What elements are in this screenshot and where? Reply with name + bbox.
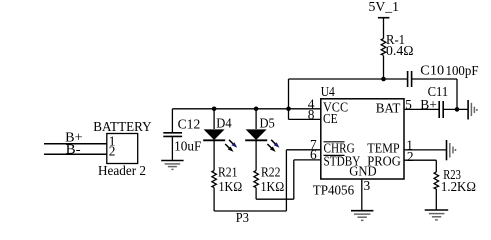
svg-text:R22: R22 <box>261 165 281 180</box>
svg-text:C12: C12 <box>178 116 201 131</box>
svg-text:R21: R21 <box>218 165 238 180</box>
svg-text:3: 3 <box>364 178 371 193</box>
svg-text:6: 6 <box>310 147 317 162</box>
svg-text:P3: P3 <box>236 210 249 225</box>
svg-text:U4: U4 <box>321 84 335 99</box>
svg-text:10uF: 10uF <box>174 139 201 154</box>
svg-text:CE: CE <box>323 111 338 126</box>
svg-text:2: 2 <box>407 149 414 164</box>
svg-text:B+: B+ <box>420 97 437 112</box>
svg-text:5: 5 <box>405 97 412 112</box>
svg-text:B-: B- <box>66 142 81 157</box>
svg-text:5V_1: 5V_1 <box>369 0 400 14</box>
svg-text:D5: D5 <box>260 116 276 131</box>
svg-text:D4: D4 <box>216 116 232 131</box>
svg-text:0.4Ω: 0.4Ω <box>386 43 414 58</box>
svg-text:8: 8 <box>308 107 315 122</box>
svg-text:BATTERY: BATTERY <box>93 119 152 134</box>
svg-text:1KΩ: 1KΩ <box>219 179 243 194</box>
svg-text:100pF: 100pF <box>446 63 479 78</box>
svg-text:1KΩ: 1KΩ <box>261 179 285 194</box>
svg-text:GND: GND <box>349 164 377 179</box>
svg-text:BAT: BAT <box>376 101 401 116</box>
svg-text:TP4056: TP4056 <box>313 182 355 197</box>
svg-text:C10: C10 <box>420 63 444 78</box>
svg-text:2: 2 <box>109 144 116 159</box>
svg-text:Header 2: Header 2 <box>98 163 146 178</box>
svg-text:1.2KΩ: 1.2KΩ <box>441 179 476 194</box>
